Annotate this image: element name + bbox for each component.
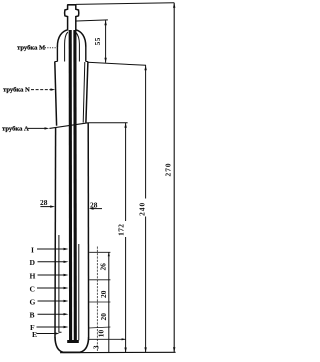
tick 20/10	[89, 327, 111, 328]
svg-text:270: 270	[163, 162, 172, 176]
svg-text:240: 240	[138, 202, 147, 216]
inner tube line right	[78, 244, 80, 340]
tick 26 top	[89, 251, 110, 253]
svg-text:I: I	[31, 245, 34, 254]
center tube end cap	[67, 340, 79, 343]
dome shoulder right arc	[76, 30, 86, 47]
dimension 172 top tick	[88, 122, 128, 124]
arrow E	[55, 332, 60, 334]
tube top cap	[67, 4, 76, 6]
step at dome bottom left	[55, 61, 58, 63]
leader H	[38, 274, 65, 276]
tube M inner right wall	[76, 32, 80, 62]
taper inner right line	[83, 62, 85, 123]
svg-text:172: 172	[117, 224, 126, 236]
svg-text:26: 26	[98, 263, 107, 271]
dimension 55	[77, 20, 108, 63]
svg-text:H: H	[30, 271, 36, 280]
dome right wall	[85, 46, 87, 62]
dimension 28 left	[40, 198, 55, 208]
nipple left wall with bulge	[65, 5, 68, 31]
label trubka A	[2, 126, 49, 133]
leader N dashed	[31, 89, 53, 91]
tick 10/3 to 172 line	[89, 338, 126, 340]
body left wall	[54, 128, 57, 337]
55 vertical line	[105, 21, 107, 63]
joint line at tube A top	[49, 123, 88, 129]
dimension 28 right	[89, 200, 102, 209]
leader G	[38, 300, 65, 302]
55 top tick	[77, 20, 108, 21]
taper left wall	[55, 62, 57, 126]
small dims ladder rails	[96, 247, 98, 353]
inner tube line left (E tube)	[59, 235, 62, 332]
nipple right wall with bulge	[76, 5, 79, 31]
callout letters I D H C G B F E with leaders	[37, 249, 65, 334]
leader I	[37, 248, 65, 250]
bottom U arc	[55, 337, 89, 352]
arrow B	[64, 313, 69, 315]
leader B	[38, 313, 65, 315]
body right wall	[87, 123, 89, 337]
bottom baseline	[60, 351, 176, 353]
svg-text:трубка А: трубка А	[2, 126, 29, 133]
dimension 240 line	[145, 65, 147, 352]
label trubka N	[3, 87, 55, 94]
leader C	[37, 287, 65, 289]
svg-text:G: G	[30, 297, 36, 306]
tick 20/20	[89, 301, 110, 303]
arrow G	[64, 300, 69, 302]
svg-text:10: 10	[97, 330, 106, 338]
label trubka M	[17, 45, 57, 52]
svg-text:C: C	[30, 284, 35, 293]
leader M dotted	[45, 47, 57, 49]
arrow D	[64, 261, 69, 263]
arrow F	[64, 326, 69, 328]
dimension 172 line	[125, 123, 127, 353]
leader A	[28, 127, 46, 129]
leader D	[38, 261, 65, 263]
svg-text:D: D	[30, 258, 36, 267]
arrow I	[64, 248, 69, 250]
leader F	[37, 326, 65, 328]
dimension 240 top tick	[88, 62, 146, 65]
svg-text:20: 20	[99, 290, 108, 298]
tube M inner left wall	[65, 32, 68, 62]
arrow C	[64, 287, 69, 289]
arrow H	[64, 274, 69, 276]
svg-text:трубка М: трубка М	[17, 45, 46, 52]
dark center tube right line	[73, 30, 77, 341]
svg-text:3: 3	[92, 345, 101, 349]
svg-text:20: 20	[99, 313, 108, 321]
svg-text:55: 55	[93, 37, 102, 45]
taper right wall	[86, 62, 88, 123]
dimension 270 top line	[76, 3, 174, 5]
dark center tube left line	[69, 30, 73, 341]
leader E	[37, 333, 56, 335]
dimension 270 line	[173, 3, 175, 353]
svg-text:E: E	[32, 330, 37, 339]
svg-text:трубка N: трубка N	[3, 87, 30, 94]
240 text	[138, 199, 148, 217]
dome left wall	[56, 46, 58, 62]
step at dome bottom right	[86, 61, 88, 63]
tick 26/20	[89, 279, 110, 281]
svg-text:B: B	[30, 311, 35, 320]
dome shoulder left arc	[57, 30, 67, 47]
svg-text:28: 28	[40, 198, 48, 207]
